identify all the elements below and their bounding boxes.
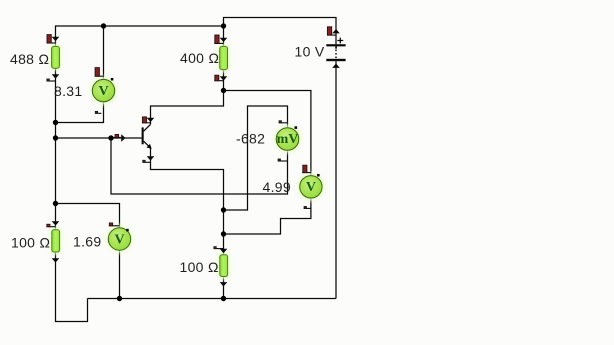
voltage bar: R2 top terminal (10 V)	[214, 35, 223, 43]
wire: left column to voltmeter V4 top	[56, 204, 120, 228]
voltage bar: V1 bottom terminal (small mark)	[95, 111, 101, 113]
wire: top-left rail from 488-ohm top to 400-ohm column	[56, 26, 224, 46]
wire: left column between resistors	[55, 68, 57, 230]
voltage bar: mV meter top terminal (small mark)	[279, 121, 288, 123]
junction node: left column / V1 bottom	[53, 120, 58, 125]
current arrow: battery positive (up)	[332, 29, 340, 33]
junction node: base / mV branch	[108, 135, 113, 140]
wire: voltmeter V3 bottom loop to R4 top node	[224, 198, 311, 234]
wire: top-right rail jog to battery positive	[224, 18, 337, 45]
svg-text:-682: -682	[236, 131, 265, 147]
current arrow: out of R4 (down)	[220, 282, 228, 286]
voltage bar: base terminal (small)	[114, 134, 121, 137]
current arrow: into R3 (down)	[52, 221, 60, 225]
svg-text:488 Ω: 488 Ω	[10, 51, 49, 67]
junction node: R4 top / V3 loop	[221, 231, 226, 236]
wire: 400-ohm column top	[223, 26, 225, 46]
voltmeter V4 (1.69)	[106, 225, 134, 253]
wire: millivoltmeter top lead loop to emitter node	[224, 106, 288, 210]
junction node: ground rail / R4 bottom	[221, 296, 226, 301]
wire: bottom ground rail	[88, 298, 337, 300]
current arrow: out of R3 (down)	[52, 258, 60, 262]
svg-text:V: V	[114, 232, 124, 247]
junction node: ground rail / V4 bottom	[117, 296, 122, 301]
polarity dot: V4	[126, 229, 129, 232]
voltage bar: V3 top terminal (5 V)	[302, 165, 311, 172]
voltmeter V3 (4.99)	[297, 173, 325, 201]
polarity dot: V3	[317, 174, 320, 177]
current arrow: collector (down)	[147, 118, 155, 122]
voltage bar: V4 top terminal (1.69 V small)	[109, 223, 120, 226]
junction node: emitter / mV loop	[221, 207, 226, 212]
polarity dot: mV meter	[295, 126, 298, 129]
junction node: left column / V4 top wire	[53, 201, 58, 206]
svg-text:V: V	[306, 180, 316, 195]
voltage bar: V1 top terminal	[95, 68, 104, 77]
battery B1 10 V	[326, 44, 345, 61]
current arrow: emitter (down)	[147, 156, 155, 160]
wire: bottom-left tail	[56, 252, 88, 321]
junction node: top rail / 400-ohm	[221, 23, 226, 28]
current arrow: base wire (right)	[121, 134, 125, 142]
svg-text:4.99: 4.99	[263, 179, 291, 195]
current arrow: out of R1 (down)	[52, 74, 60, 78]
current arrow: out of R2 (down)	[220, 76, 228, 80]
wire: voltmeter V1 top lead	[103, 26, 105, 80]
svg-text:400 Ω: 400 Ω	[180, 50, 219, 66]
svg-text:1.69: 1.69	[73, 234, 101, 250]
resistor R3 100 ohm (left)	[49, 227, 62, 254]
junction node: top rail / V1	[101, 23, 106, 28]
wire: R4 bottom to ground rail	[223, 277, 225, 299]
voltage bar: battery positive terminal (10 V)	[327, 27, 336, 35]
voltage bar: collector terminal (5 V)	[142, 117, 151, 123]
wire: voltmeter V4 bottom to ground rail	[119, 250, 121, 298]
wire: collector to 400-ohm bottom node	[151, 91, 224, 125]
resistor R4 100 ohm (emitter)	[217, 252, 230, 279]
wire: 400-ohm node to voltmeter V3 top	[224, 91, 311, 176]
wire: voltmeter V1 bottom lead to left column	[56, 102, 104, 123]
svg-text:100 Ω: 100 Ω	[180, 259, 219, 275]
svg-text:100 Ω: 100 Ω	[11, 235, 50, 251]
voltage bar: mV meter bottom terminal (small mark)	[278, 159, 288, 161]
voltage bar: R1 top terminal (10 V)	[47, 35, 56, 43]
voltage bar: R3 top terminal (1.69 V small)	[47, 224, 56, 227]
wire: emitter down to 100-ohm R4 top	[151, 148, 224, 255]
svg-text:mV: mV	[277, 132, 299, 147]
current arrow: battery negative return (up)	[332, 64, 340, 68]
wire: base node down to millivoltmeter bottom lead	[111, 138, 288, 194]
voltage bar: R1 bottom terminal (8.31 V small mark)	[47, 79, 56, 81]
voltage bar: R4 top terminal (0.25 V small)	[214, 247, 224, 249]
wire: base wire	[56, 137, 142, 139]
polarity dot: V1	[111, 78, 114, 81]
resistor R1 488 ohm	[49, 44, 62, 70]
current arrow: into R4 (down)	[220, 249, 228, 253]
voltage bar: V3 bottom terminal (small mark)	[304, 206, 311, 208]
junction node: 400-ohm bottom / collector / V3 branch	[221, 88, 226, 93]
voltage bar: emitter terminal (small mark)	[143, 160, 151, 162]
current arrow: into R1 (down)	[52, 37, 60, 41]
wire: 400-ohm column bottom	[223, 70, 225, 91]
voltmeter V2 mV (-682)	[274, 125, 302, 153]
svg-text:8.31: 8.31	[54, 83, 82, 99]
voltage bar: R2 bottom terminal (5 V)	[214, 75, 223, 81]
current arrow: into R2 (down)	[220, 38, 228, 42]
svg-text:V: V	[98, 84, 108, 99]
wire: battery negative down right side	[335, 61, 337, 298]
svg-text:10 V: 10 V	[295, 43, 325, 59]
resistor R2 400 ohm	[217, 44, 230, 72]
battery plus sign	[337, 38, 343, 44]
junction node: left column / base wire	[53, 135, 58, 140]
voltmeter V1 (8.31)	[90, 77, 118, 105]
transistor Q1 NPN	[142, 124, 152, 149]
